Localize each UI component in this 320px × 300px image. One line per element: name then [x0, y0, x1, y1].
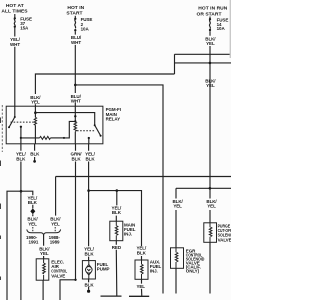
- wire pin YEL/BLK (fuel pump feed) below relay: [88, 144, 90, 261]
- label BLK: [84, 282, 94, 287]
- svg-text:YEL: YEL: [206, 41, 215, 46]
- bus wire B with step: [175, 54, 232, 74]
- svg-text:YEL: YEL: [28, 221, 37, 226]
- svg-text:YEL: YEL: [31, 99, 40, 104]
- node fuse14/bus junction: [209, 62, 212, 65]
- svg-text:BLK: BLK: [112, 210, 122, 215]
- wire BLK/YEL merged to valve: [43, 235, 45, 259]
- scan artifact band top right: [230, 0, 231, 58]
- year brace: [27, 229, 61, 235]
- svg-text:YEL: YEL: [173, 204, 182, 209]
- wire RED to bottom bar: [115, 241, 118, 296]
- label BLK/YEL 1990-91: [27, 217, 38, 227]
- svg-text:1989: 1989: [50, 240, 60, 245]
- fuel pump: [82, 261, 95, 279]
- svg-text:BLK: BLK: [28, 200, 38, 205]
- label FUSE 2 10A: [81, 17, 93, 31]
- wire horizontal to injectors: [89, 191, 142, 260]
- wire GRN/BLK jog to bottom: [60, 280, 76, 300]
- label PURGE CUT-OFF SOLENOID VALVE: [218, 223, 237, 242]
- label BLK/YEL at relay: [30, 95, 41, 105]
- label AUX. FUEL INJ.: [150, 260, 162, 274]
- relay coil 2 (on BLU/WHT to GRN/BLK): [74, 106, 77, 144]
- node main injector junction: [116, 189, 119, 192]
- electronic air control valve: [36, 259, 49, 280]
- svg-text:BLK: BLK: [85, 156, 95, 161]
- wire YEL to bottom bar: [141, 279, 143, 296]
- wire contact bus to switch 2: [35, 113, 94, 125]
- wire left branch to far-left vertical: [7, 191, 21, 300]
- label BLK/YEL purge: [206, 199, 217, 209]
- wire switch2 output to YEL/BLK pin: [88, 138, 90, 144]
- label BLK/YEL 1988-89 stub: [50, 217, 61, 227]
- header HOT IN RUN OR START: [196, 6, 227, 18]
- relay switch 1 (left): [8, 106, 22, 128]
- svg-text:WHT: WHT: [10, 42, 20, 47]
- relay resistor (horizontal): [20, 121, 76, 139]
- svg-text:YEL: YEL: [51, 221, 60, 226]
- label RED: [112, 245, 122, 250]
- label YEL/WHT: [10, 37, 21, 47]
- svg-text:BLK: BLK: [30, 152, 40, 157]
- label FUSE 14 10A: [217, 18, 229, 31]
- svg-text:INJ.: INJ.: [150, 269, 158, 274]
- node GRN/BLK corner: [74, 279, 76, 281]
- wire valve to bottom: [42, 280, 44, 300]
- node purge junction: [209, 187, 212, 190]
- label EGR CONTROL SOLENOID VALVE (CALIF. ONLY): [186, 248, 205, 273]
- svg-text:WHT: WHT: [71, 98, 81, 103]
- fuse F37: [14, 14, 16, 28]
- svg-text:HOT IN RUN: HOT IN RUN: [198, 6, 227, 12]
- svg-text:VALVE: VALVE: [218, 237, 231, 242]
- svg-text:RELAY: RELAY: [106, 117, 121, 122]
- wire dashed stub 1990-91: [32, 227, 34, 231]
- svg-text:BLK: BLK: [71, 156, 81, 161]
- wire right branch to year connector: [21, 191, 33, 216]
- relay box PGM-FI MAIN RELAY: [6, 106, 103, 144]
- label YEL/BLK fuel pump: [84, 247, 95, 257]
- node BLU/WHT branch junction: [74, 84, 77, 87]
- EGR control solenoid valve: [171, 248, 184, 268]
- label PGM-FI MAIN RELAY: [106, 107, 121, 121]
- wire BLK below pump: [88, 279, 90, 290]
- svg-text:BLK: BLK: [84, 251, 94, 256]
- wire BLU/WHT fuse2 to relay: [74, 31, 76, 106]
- label BLK/YEL (below fuse 14): [205, 36, 216, 46]
- label GRN/BLK: [71, 152, 83, 162]
- node fuel-pump-feed junction: [87, 189, 90, 192]
- label FUEL PUMP: [97, 262, 110, 272]
- wire EGR drop: [175, 210, 177, 294]
- label BLK/YEL: [39, 246, 50, 256]
- relay switch 2 (right): [88, 124, 102, 139]
- svg-text:YEL: YEL: [206, 83, 215, 88]
- label YEL/BLK: [27, 196, 38, 206]
- ground dot fuel pump: [87, 290, 90, 293]
- wire pin GRN/BLK below relay: [75, 144, 77, 280]
- svg-text:HOT AT: HOT AT: [6, 3, 24, 9]
- svg-text:10A: 10A: [217, 26, 226, 31]
- label MAIN FUEL INJ.: [124, 223, 136, 237]
- node YEL/BLK left junction: [20, 190, 23, 193]
- svg-text:HOT IN: HOT IN: [67, 5, 84, 11]
- svg-text:YEL: YEL: [136, 284, 145, 289]
- purge cut-off solenoid valve: [204, 223, 217, 243]
- wire BLK/YEL fuse14 down to purge valve: [209, 31, 211, 293]
- header HOT IN START: [66, 5, 84, 17]
- svg-text:PUMP: PUMP: [97, 266, 110, 271]
- wire main injector drop: [115, 191, 118, 222]
- wire horizontal feed (1988-89) with corner: [56, 177, 231, 216]
- edge tick marks (cropped page content): [0, 118, 1, 281]
- wire dashed stub 1988-89: [54, 227, 56, 231]
- svg-text:VALVE: VALVE: [51, 273, 65, 278]
- label BLU/WHT at relay: [71, 94, 82, 104]
- label YEL: [136, 284, 145, 289]
- wire pin BLK below relay: [34, 144, 36, 161]
- bar main bottom: [101, 295, 122, 297]
- label BLK/YEL (second, above junction): [205, 79, 216, 89]
- bar aux bottom: [129, 295, 149, 297]
- svg-text:WHT: WHT: [71, 40, 81, 45]
- svg-text:1991: 1991: [29, 240, 39, 245]
- fuse F14: [209, 17, 211, 32]
- wire pin YEL/BLK below relay: [20, 144, 22, 300]
- svg-text:YEL: YEL: [207, 204, 216, 209]
- wire YEL/WHT fuse37 to relay: [14, 28, 16, 106]
- label BLU/WHT top: [71, 35, 82, 45]
- bus wire A top right: [175, 53, 232, 55]
- svg-text:15A: 15A: [20, 26, 29, 31]
- label FUSE 37 15A: [20, 16, 32, 30]
- wire horizontal EGR/purge feed: [176, 188, 231, 198]
- label YEL/BLK main inj: [112, 206, 123, 216]
- relay coil 1 (on BLK/YEL to BLK): [34, 106, 37, 144]
- svg-text:BLK: BLK: [84, 282, 94, 287]
- svg-text:YEL: YEL: [40, 251, 49, 256]
- svg-text:10A: 10A: [81, 26, 90, 31]
- aux fuel injector: [135, 260, 148, 279]
- wire relay output to YEL/BLK pin: [20, 127, 22, 144]
- label 1990-1991: [26, 235, 39, 245]
- bus wire C to relay BLK/YEL pin: [35, 74, 174, 106]
- linkage dashed 1: [11, 121, 35, 123]
- label BLK: [30, 152, 40, 157]
- svg-text:BLK: BLK: [16, 156, 26, 161]
- label BLK/YEL EGR: [173, 199, 184, 209]
- main fuel injector: [110, 221, 123, 241]
- label YEL/BLK: [85, 152, 96, 162]
- svg-text:START: START: [66, 11, 82, 17]
- label YEL/BLK aux inj: [136, 246, 147, 256]
- linkage dashed 2: [77, 130, 95, 132]
- node BLK wire end: [33, 160, 36, 163]
- label ELEC. AIR CONTROL VALVE: [51, 260, 67, 279]
- label 1988-1989: [49, 235, 61, 245]
- label YEL/BLK: [16, 152, 27, 162]
- fuse F2: [74, 16, 76, 32]
- svg-text:BLK: BLK: [137, 250, 147, 255]
- cropped wire fragment at left edge: [1, 105, 3, 152]
- svg-text:INJ.: INJ.: [124, 232, 132, 237]
- svg-text:RED: RED: [112, 245, 122, 250]
- svg-text:ALL TIMES: ALL TIMES: [1, 9, 28, 15]
- header HOT AT ALL TIMES: [1, 3, 28, 15]
- wire branch to right vertical: [75, 85, 163, 294]
- svg-text:ONLY): ONLY): [186, 268, 200, 273]
- svg-text:OR START: OR START: [196, 11, 221, 17]
- connector diamond: [30, 208, 35, 214]
